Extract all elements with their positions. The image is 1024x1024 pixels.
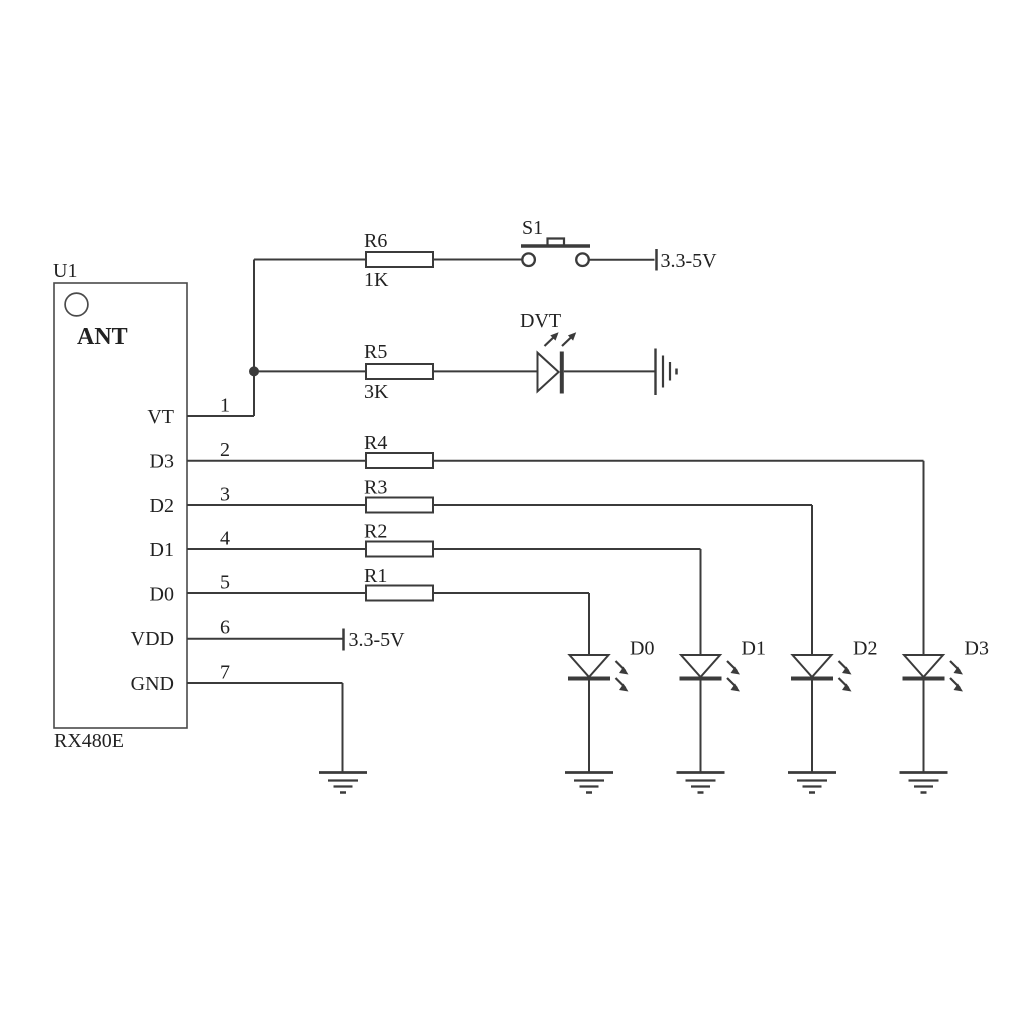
wire D0 LED to ground [588, 680, 590, 772]
wire D0 column vertical [588, 593, 590, 655]
power label 3.3-5V (VDD) [349, 629, 406, 651]
wire D1 LED to ground [700, 680, 702, 772]
wire GND vertical drop [342, 683, 344, 772]
D1 reference label [742, 638, 766, 660]
svg-text:D3: D3 [965, 638, 989, 660]
pin number 7 [220, 662, 230, 684]
svg-text:R5: R5 [364, 341, 387, 363]
D3 reference label [965, 638, 989, 660]
svg-text:7: 7 [220, 662, 230, 684]
wire D3 pin to R4 [187, 460, 366, 462]
svg-text:6: 6 [220, 617, 230, 639]
wire S1 to power [589, 259, 655, 261]
node junction dot [249, 366, 259, 376]
D0 arrows heads [619, 667, 629, 692]
svg-text:D1: D1 [150, 539, 174, 561]
pin label D2 [150, 495, 174, 517]
resistor R5 [366, 364, 433, 379]
D1 arrows heads [731, 667, 741, 692]
wire junction to R5 [254, 370, 366, 372]
svg-text:R1: R1 [364, 565, 387, 587]
D2 reference label [853, 638, 877, 660]
wire D1 column vertical [700, 549, 702, 655]
svg-text:S1: S1 [522, 217, 543, 239]
ANT label [77, 324, 128, 350]
svg-text:R6: R6 [364, 230, 387, 252]
svg-text:1K: 1K [364, 269, 389, 291]
LED DVT [538, 332, 577, 393]
pin label VT [147, 406, 174, 428]
svg-text:D1: D1 [742, 638, 766, 660]
wire D2 column vertical [811, 505, 813, 655]
wire VT pin1 horizontal [187, 415, 254, 417]
LED D1 [680, 655, 738, 688]
wire R5 to DVT [433, 370, 538, 372]
LED D2 [791, 655, 849, 688]
wire R3 to D2 column [433, 504, 812, 506]
D2 arrows heads [842, 667, 852, 692]
wire D2 pin to R3 [187, 504, 366, 506]
svg-text:VT: VT [147, 406, 174, 428]
S1 reference label [522, 217, 543, 239]
pin number 6 [220, 617, 230, 639]
svg-text:3K: 3K [364, 381, 389, 403]
pin number 3 [220, 484, 230, 506]
power symbol 3.3-5V (top) [655, 249, 658, 271]
power label 3.3-5V (top) [661, 250, 718, 272]
pin number 2 [220, 439, 230, 461]
ground (D3) [900, 773, 948, 793]
svg-text:R3: R3 [364, 477, 387, 499]
svg-text:DVT: DVT [520, 310, 561, 332]
wire VDD pin to power [187, 638, 343, 640]
R4 reference label [364, 432, 387, 454]
wire R2 to D1 column [433, 548, 701, 550]
wire DVT to ground [564, 370, 655, 372]
DVT reference label [520, 310, 561, 332]
pin label D1 [150, 539, 174, 561]
svg-text:D0: D0 [630, 638, 654, 660]
svg-text:GND: GND [131, 673, 174, 695]
LED D3 [903, 655, 961, 688]
svg-text:D0: D0 [150, 584, 174, 606]
svg-text:3.3-5V: 3.3-5V [349, 629, 406, 651]
resistor R3 [366, 498, 433, 513]
wire R1 to D0 column [433, 592, 589, 594]
pin number 5 [220, 572, 230, 594]
svg-text:5: 5 [220, 572, 230, 594]
pin number 4 [220, 528, 230, 550]
pin label D3 [150, 451, 174, 473]
LED D0 [568, 655, 626, 688]
ground (GND pin) [319, 773, 367, 793]
wire D3 column vertical [923, 461, 925, 655]
R1 reference label [364, 565, 387, 587]
wire top row to R6 [254, 259, 366, 261]
RX480E value label [54, 730, 124, 752]
pin label VDD [131, 628, 174, 650]
power symbol 3.3-5V (VDD) [342, 629, 345, 651]
wire D0 pin to R1 [187, 592, 366, 594]
wire VT vertical riser [253, 260, 255, 417]
antenna circle [65, 293, 88, 316]
ground (rotated, after DVT) [656, 349, 677, 396]
svg-text:D2: D2 [853, 638, 877, 660]
R6 reference label [364, 230, 387, 252]
svg-text:D2: D2 [150, 495, 174, 517]
svg-text:1: 1 [220, 395, 230, 417]
U1 reference label [53, 260, 77, 282]
svg-text:D3: D3 [150, 451, 174, 473]
wire D3 LED to ground [923, 680, 925, 772]
wire GND pin horizontal [187, 682, 343, 684]
wire D2 LED to ground [811, 680, 813, 772]
pin number 1 [220, 395, 230, 417]
op-amp U1 [54, 283, 187, 728]
svg-text:3: 3 [220, 484, 230, 506]
R5 reference label [364, 341, 387, 363]
R5 value label 3K [364, 381, 389, 403]
pin label D0 [150, 584, 174, 606]
ground (D2) [788, 773, 836, 793]
resistor R2 [366, 542, 433, 557]
ground (D1) [677, 773, 725, 793]
svg-text:VDD: VDD [131, 628, 174, 650]
R6 value label 1K [364, 269, 389, 291]
svg-text:4: 4 [220, 528, 230, 550]
svg-text:3.3-5V: 3.3-5V [661, 250, 718, 272]
D0 reference label [630, 638, 654, 660]
resistor R6 [366, 252, 433, 267]
D3 arrows heads [954, 667, 964, 692]
wire D1 pin to R2 [187, 548, 366, 550]
svg-text:R2: R2 [364, 521, 387, 543]
R2 reference label [364, 521, 387, 543]
svg-text:RX480E: RX480E [54, 730, 124, 752]
ground (D0) [565, 773, 613, 793]
pin label GND [131, 673, 174, 695]
svg-text:ANT: ANT [77, 324, 128, 350]
svg-text:R4: R4 [364, 432, 387, 454]
wire R6 to S1 [433, 259, 522, 261]
svg-text:U1: U1 [53, 260, 77, 282]
resistor R1 [366, 586, 433, 601]
R3 reference label [364, 477, 387, 499]
svg-text:2: 2 [220, 439, 230, 461]
resistor R4 [366, 453, 433, 468]
switch S1 [521, 239, 590, 267]
wire R4 to D3 column [433, 460, 924, 462]
